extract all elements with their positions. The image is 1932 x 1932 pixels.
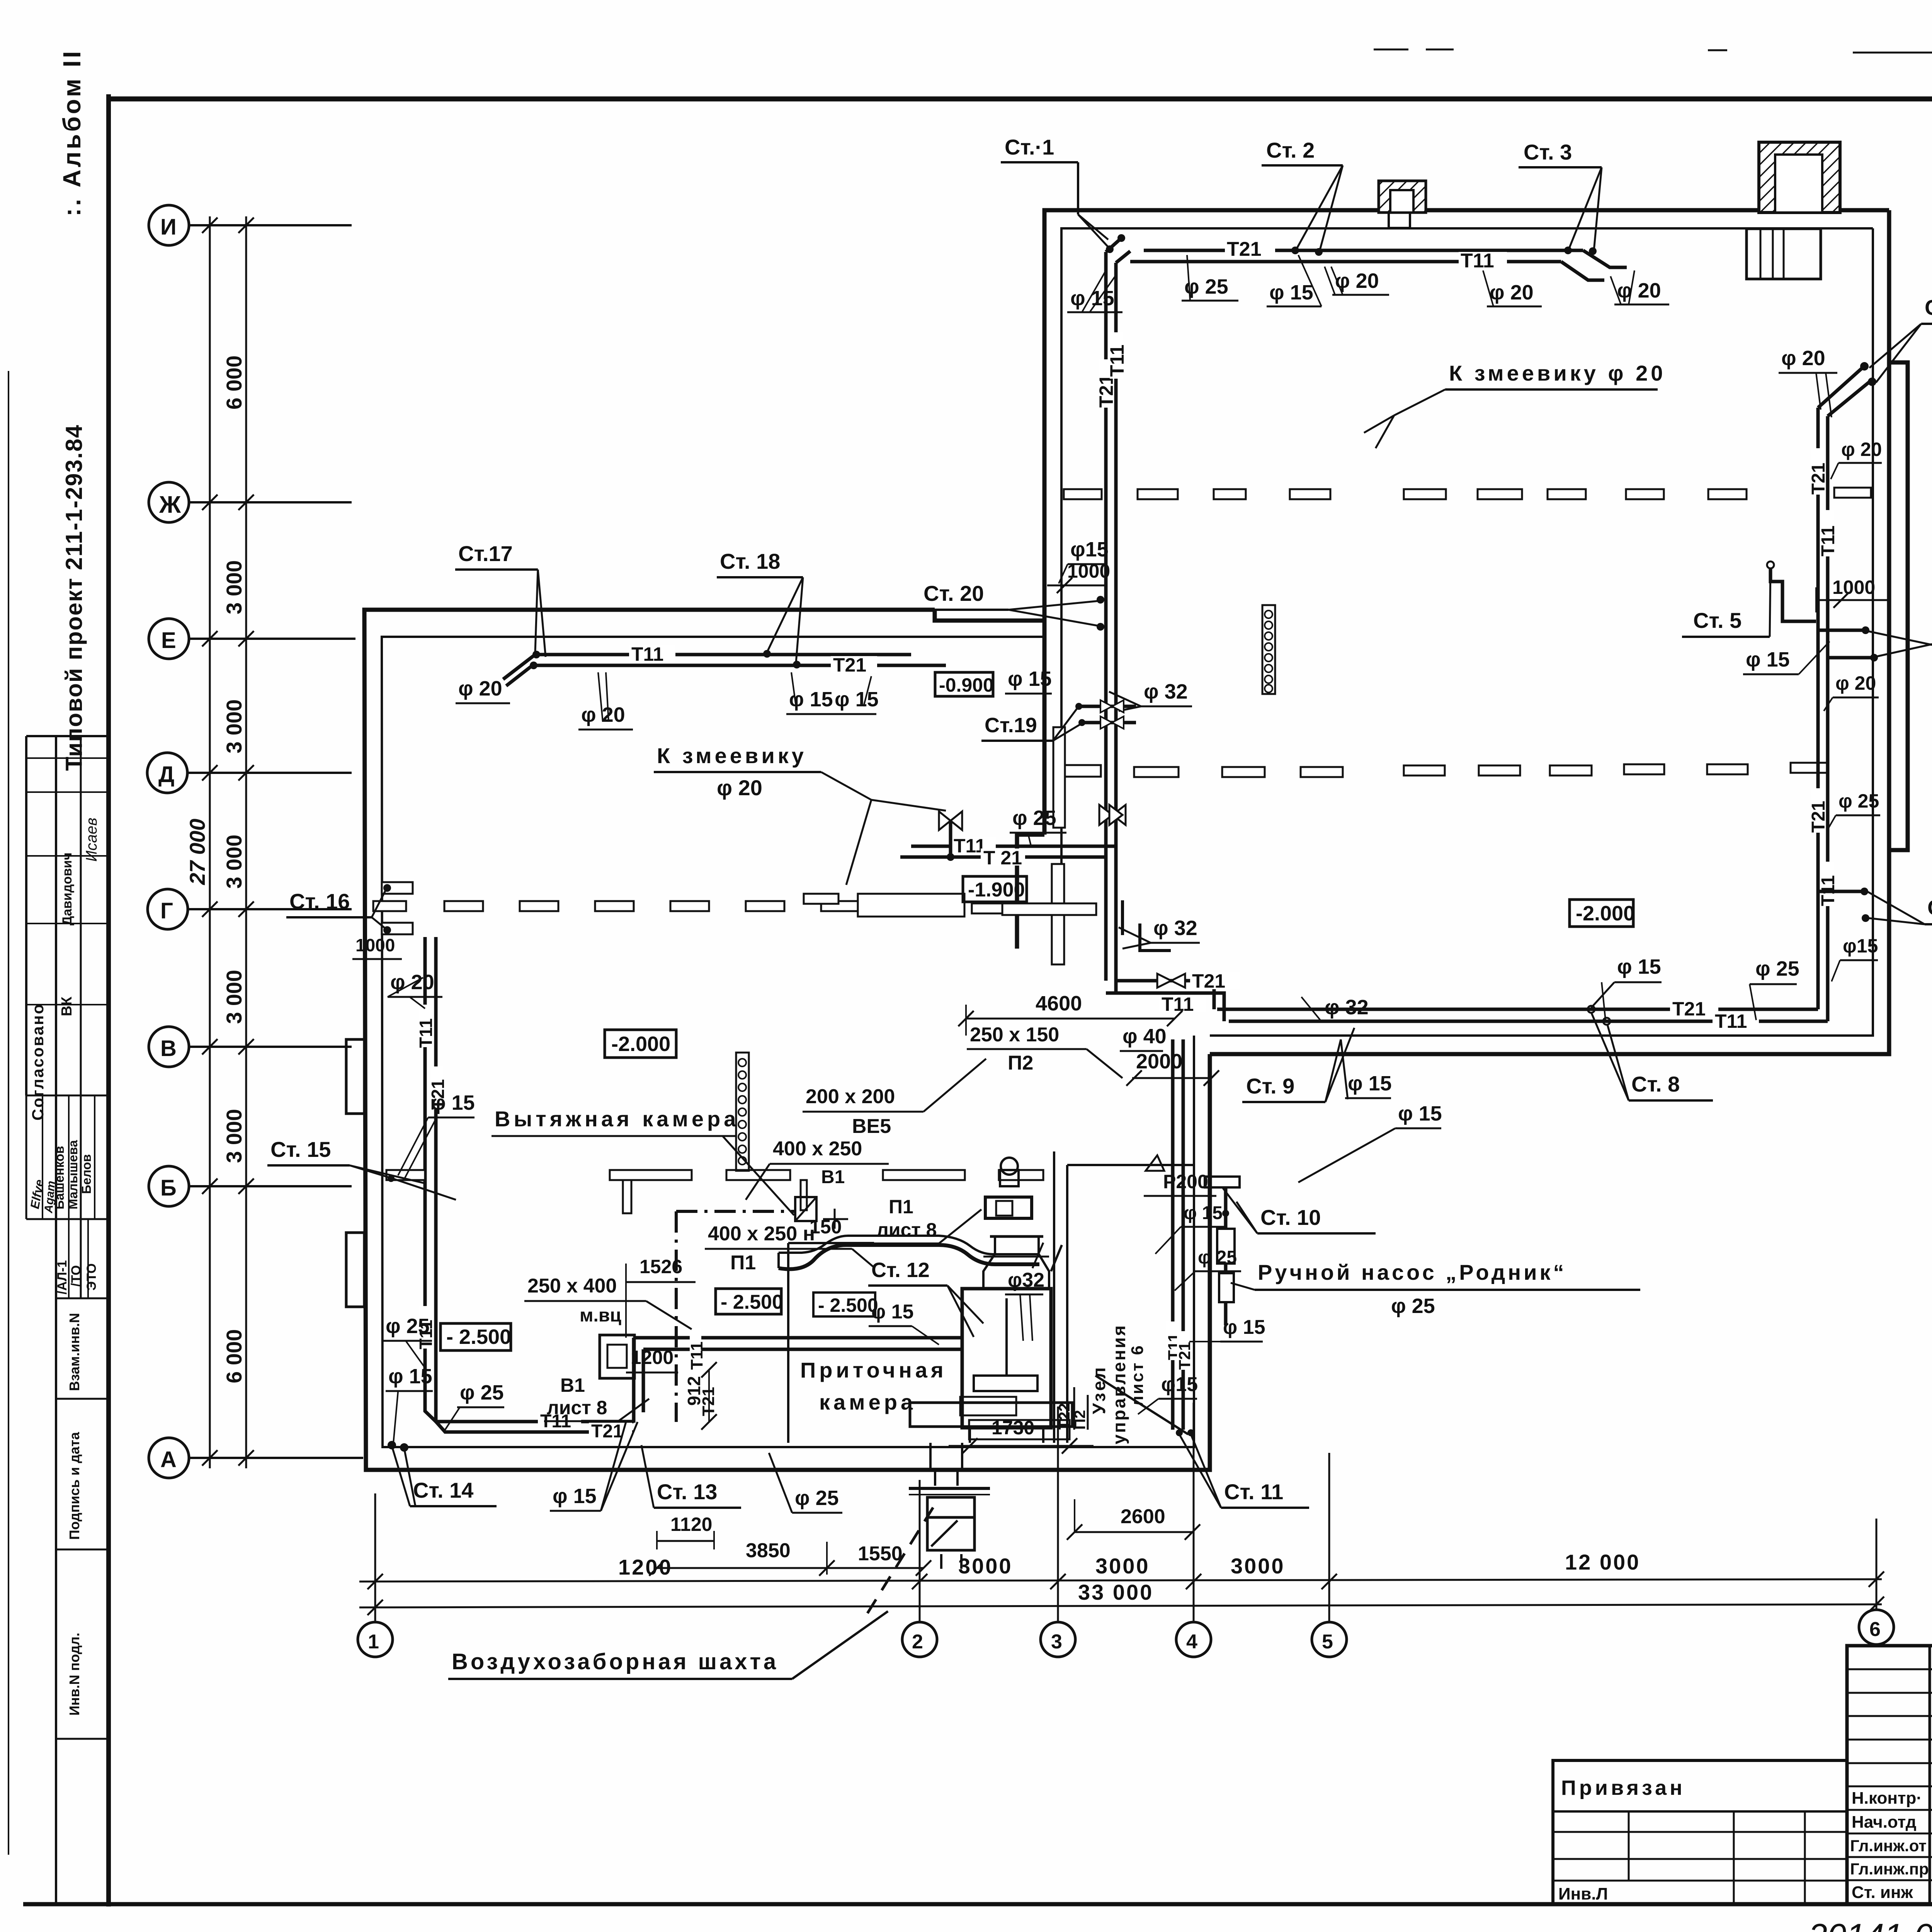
svg-text:Т11: Т11 (1106, 345, 1128, 377)
svg-text:12 000: 12 000 (1565, 1550, 1640, 1574)
St.3 callout (1519, 140, 1602, 255)
B1 box in vytyazhnaya (600, 1335, 634, 1378)
column circle 2 (902, 1480, 937, 1657)
svg-text:φ 20: φ 20 (1335, 269, 1379, 293)
svg-text:Ст. 16: Ст. 16 (289, 889, 350, 913)
4600 dimension (958, 992, 1182, 1036)
svg-text:Р200: Р200 (1163, 1171, 1208, 1192)
axis circle Г (148, 889, 352, 929)
phi25 on bottom run (1750, 957, 1799, 1020)
svg-text:φ 15: φ 15 (1070, 287, 1114, 310)
1730 dim (949, 1417, 1094, 1454)
pipes across pritochnaya (634, 1328, 962, 1423)
svg-text:2: 2 (912, 1631, 923, 1653)
svg-text:φ 20: φ 20 (458, 677, 502, 700)
svg-text:φ 15: φ 15 (388, 1365, 432, 1388)
svg-text:φ 25: φ 25 (1012, 806, 1056, 830)
page scan edge artifact line (8, 371, 9, 1855)
interior pipes vertical (1165, 1039, 1194, 1430)
svg-text:Инв.N подл.: Инв.N подл. (66, 1633, 82, 1716)
svg-text:400 x 250: 400 x 250 (773, 1138, 862, 1160)
phi15 under P200 (1155, 1203, 1227, 1254)
svg-text:Т21: Т21 (1095, 374, 1117, 408)
stub band axis Д hall (1134, 763, 1827, 777)
svg-text:1120: 1120 (670, 1514, 712, 1535)
svg-text:1200: 1200 (631, 1347, 673, 1368)
B1 list8 callout (544, 1374, 649, 1421)
svg-text:Ст.19: Ст.19 (985, 714, 1037, 737)
hall mid junction horizontals (900, 835, 1116, 869)
svg-text:φ 15: φ 15 (1008, 667, 1052, 690)
svg-text:Т11: Т11 (1461, 250, 1494, 272)
svg-text:Ст. инж: Ст. инж (1852, 1883, 1913, 1902)
svg-text:φ 15: φ 15 (1223, 1316, 1265, 1338)
wall hall right outer (1210, 210, 1889, 1054)
St.4 callout (1869, 295, 1932, 383)
phi25 mid left (383, 1315, 432, 1368)
axis circle И (149, 205, 352, 245)
svg-text:Т21: Т21 (1808, 463, 1829, 495)
1000 dim below St16 (352, 935, 402, 959)
svg-text:φ32: φ32 (1008, 1269, 1044, 1291)
svg-text:П1: П1 (730, 1252, 756, 1274)
svg-text:4600: 4600 (1036, 992, 1082, 1015)
svg-text:/АЛ-1: /АЛ-1 (55, 1260, 70, 1294)
column circle 5 (1312, 1453, 1347, 1657)
svg-text:ВЕ5: ВЕ5 (852, 1115, 891, 1138)
svg-text:Т21: Т21 (1227, 238, 1262, 260)
svg-text:φ 20: φ 20 (1617, 279, 1661, 302)
damper box B1 (795, 1197, 816, 1221)
T22 P2 rotated labels (1056, 1387, 1088, 1430)
phi20 label 2 (578, 672, 633, 730)
1000 dim top riser (1047, 560, 1110, 593)
svg-text:3 000: 3 000 (222, 560, 246, 614)
St.20 callout (883, 581, 1104, 631)
svg-text:Ст. 5: Ст. 5 (1693, 608, 1742, 633)
svg-text:Узел: Узел (1089, 1365, 1109, 1414)
svg-text:Инв.Л: Инв.Л (1558, 1884, 1608, 1903)
Vozduhozaborna shahta label (448, 1611, 888, 1679)
shaft box (927, 1497, 975, 1569)
-0.900 box (935, 672, 994, 696)
svg-text:Ст.·1: Ст.·1 (1005, 135, 1054, 159)
svg-text::. Альбом II: :. Альбом II (58, 49, 86, 216)
top corner elbows to risers (1106, 234, 1130, 263)
hall top phi labels (1067, 270, 1122, 312)
axis circle А (149, 1438, 363, 1478)
svg-text:В: В (160, 1036, 177, 1061)
svg-text:3850: 3850 (746, 1539, 791, 1562)
tank body (962, 1289, 1051, 1428)
svg-text:φ 25: φ 25 (386, 1315, 430, 1338)
svg-text:И: И (160, 214, 177, 240)
svg-text:φ 15: φ 15 (1348, 1072, 1392, 1095)
svg-text:Т 21: Т 21 (983, 847, 1022, 869)
svg-text:Ручной насос „Родник“: Ручной насос „Родник“ (1258, 1260, 1567, 1284)
svg-text:К змеевику φ 20: К змеевику φ 20 (1449, 361, 1666, 385)
cross wall stub lower (1002, 864, 1096, 964)
St.17 callout (455, 541, 546, 657)
St.5 branch (1682, 561, 1891, 637)
wall left building top step (935, 610, 1044, 621)
svg-text:1550: 1550 (858, 1543, 903, 1565)
svg-text:Т11: Т11 (416, 1018, 436, 1048)
partition pritochnaya left wall (788, 1243, 874, 1443)
svg-text:27 000: 27 000 (185, 819, 209, 885)
svg-text:Ст. 11: Ст. 11 (1224, 1480, 1283, 1504)
Ruchnoy nasos Rodnik plan label (1231, 1260, 1640, 1318)
St.2 callout (1262, 138, 1343, 256)
top scan strip thin line and dashes (1374, 49, 1932, 53)
svg-text:250 x 150: 250 x 150 (970, 1024, 1059, 1046)
svg-text:φ 32: φ 32 (1325, 996, 1369, 1019)
svg-text:φ 25: φ 25 (1755, 957, 1799, 980)
svg-text:φ 15: φ 15 (835, 688, 879, 711)
valves chain below K zmeeviku (939, 811, 962, 861)
svg-text:Подпись и дата: Подпись и дата (66, 1432, 82, 1540)
phi25 bottom center (769, 1453, 842, 1513)
phi25 bottom left2 (445, 1381, 504, 1430)
top run T21 (530, 654, 946, 676)
svg-text:П2: П2 (1008, 1052, 1033, 1074)
svg-text:φ 20: φ 20 (581, 703, 625, 726)
svg-text:φ 20: φ 20 (717, 776, 762, 800)
svg-text:м.вц: м.вц (580, 1305, 621, 1326)
St.15 callout (267, 1137, 456, 1200)
svg-text:Ст. 14: Ст. 14 (413, 1478, 473, 1502)
phi15 left mid (398, 1091, 475, 1178)
St.14 callout (388, 1441, 497, 1506)
pipe T21 hall top run (1144, 238, 1627, 267)
St.7 branch (1818, 888, 1932, 924)
stub band axis Ж hall (1064, 488, 1871, 499)
corridor wall axis Д left bldg (804, 894, 964, 917)
svg-text:Ст. 20: Ст. 20 (923, 581, 984, 605)
ladder in left building (736, 1053, 749, 1171)
svg-text:Приточная: Приточная (800, 1358, 947, 1382)
svg-text:Воздухозаборная шахта: Воздухозаборная шахта (452, 1649, 779, 1674)
3850 1550 dims (649, 1539, 931, 1576)
wall hall right protruding plate (1889, 362, 1908, 850)
svg-text:Типовой проект 211-1-293.84: Типовой проект 211-1-293.84 (61, 424, 87, 771)
St16 wall stubs left wall (382, 882, 413, 934)
-1.900 box (963, 876, 1027, 902)
svg-text:φ15: φ15 (1843, 935, 1878, 957)
svg-text:1: 1 (368, 1631, 379, 1653)
svg-text:Белов: Белов (79, 1154, 94, 1194)
1200 dim (626, 1347, 678, 1372)
equipment rects in uzel (1205, 1177, 1240, 1325)
wall hall left lower jog (1017, 819, 1061, 949)
svg-text:Т11: Т11 (1162, 993, 1194, 1015)
dashed leader to shaft (867, 1501, 937, 1613)
pilaster lower left (346, 1233, 364, 1307)
svg-text:φ 15: φ 15 (553, 1485, 597, 1508)
svg-text:/ТО: /ТО (69, 1265, 83, 1287)
pilaster upper left (346, 1039, 364, 1114)
phi15 right of uzel (1298, 1102, 1442, 1182)
svg-text:Гл.инж.от: Гл.инж.от (1850, 1837, 1927, 1855)
svg-text:Г: Г (160, 898, 173, 923)
svg-text:2600: 2600 (1121, 1505, 1165, 1528)
svg-text:А: А (160, 1447, 177, 1472)
svg-text:φ 25: φ 25 (795, 1486, 839, 1510)
base plinth (910, 1397, 1072, 1443)
lower branch from risers to right T21 (1116, 970, 1240, 1009)
shaft duct down from building (930, 1443, 962, 1486)
svg-text:1000: 1000 (355, 935, 395, 955)
phi20 below St6 (1824, 672, 1879, 711)
ladder in hall (1262, 605, 1275, 694)
svg-text:Ст. 8: Ст. 8 (1631, 1072, 1680, 1096)
column circle 6 (1859, 1519, 1894, 1645)
duct stub and tick (823, 1209, 848, 1229)
svg-text:Т21: Т21 (591, 1421, 623, 1442)
svg-text:5: 5 (1322, 1631, 1333, 1653)
svg-text:6 000: 6 000 (222, 355, 246, 410)
svg-text:φ 15: φ 15 (1398, 1102, 1442, 1125)
St.11 callout (1176, 1429, 1309, 1508)
svg-text:Давидович: Давидович (60, 852, 75, 925)
wall hall top inner (1061, 228, 1873, 819)
svg-text:φ 32: φ 32 (1153, 917, 1197, 940)
phi15 pritochnaya (869, 1301, 939, 1345)
svg-text:Ж: Ж (159, 492, 181, 518)
svg-text:Т11: Т11 (1818, 526, 1838, 556)
svg-text:П1: П1 (889, 1196, 913, 1218)
axis circle Б (149, 1166, 352, 1206)
St.19 callout and valves (981, 700, 1136, 741)
chimney B hatched (1759, 142, 1840, 213)
svg-text:φ 15: φ 15 (1746, 648, 1790, 671)
svg-text:1000: 1000 (1832, 577, 1875, 598)
svg-text:Д: Д (158, 762, 174, 787)
svg-text:ЭТО: ЭТО (84, 1263, 99, 1291)
svg-text:Н.контр·: Н.контр· (1852, 1789, 1922, 1808)
svg-text:φ 15: φ 15 (1617, 955, 1661, 978)
axis circle Ж (149, 482, 352, 522)
svg-text:управления: управления (1109, 1324, 1129, 1444)
svg-text:φ 15: φ 15 (431, 1091, 475, 1114)
svg-text:Малышева: Малышева (66, 1140, 80, 1209)
1120 dim (657, 1514, 714, 1549)
phi15 near st19 (1005, 667, 1052, 694)
dash-dot supply duct P1 (676, 1211, 795, 1422)
svg-text:лист 8: лист 8 (876, 1219, 937, 1241)
svg-text:Нач.отд: Нач.отд (1852, 1813, 1917, 1832)
svg-text:Вытяжная камера: Вытяжная камера (495, 1107, 739, 1131)
svg-text:φ 25: φ 25 (1391, 1294, 1435, 1318)
svg-text:3000: 3000 (1231, 1554, 1285, 1578)
svg-text:200 x 200: 200 x 200 (806, 1085, 895, 1108)
phi32 labels near lower branch (1301, 996, 1369, 1022)
St.9 callout (1242, 1028, 1392, 1102)
svg-text:-1.900: -1.900 (968, 879, 1025, 901)
phi15 and St.8 on bottom run (1588, 955, 1713, 1100)
svg-text:В1: В1 (560, 1374, 585, 1396)
phi15 below st7 (1832, 935, 1878, 981)
svg-text:φ 25: φ 25 (460, 1381, 504, 1404)
svg-text:φ 20: φ 20 (1835, 672, 1876, 694)
svg-text:-0.900: -0.900 (939, 674, 994, 696)
svg-text:-2.000: -2.000 (611, 1032, 670, 1056)
svg-text:3 000: 3 000 (222, 970, 246, 1024)
svg-text:φ15: φ15 (1161, 1373, 1198, 1396)
left dimension chain lines (185, 216, 254, 1468)
svg-text:Т11: Т11 (1715, 1010, 1747, 1032)
svg-text:3: 3 (1051, 1631, 1062, 1653)
chimney B lower box (1747, 229, 1821, 279)
bottom run labels (538, 1411, 632, 1442)
-2.000 box hall (1570, 900, 1635, 927)
svg-text:Б: Б (160, 1175, 177, 1201)
svg-text:912: 912 (684, 1376, 704, 1406)
K zmeeviku callout hall (1364, 361, 1666, 448)
phi25 uzel (1175, 1247, 1241, 1291)
svg-text:φ 15: φ 15 (871, 1301, 913, 1323)
TITLE BLOCK (1847, 1646, 1932, 1905)
T wall stub upper axis Д (1053, 727, 1101, 828)
svg-text:Ст.17: Ст.17 (458, 541, 513, 566)
wall hall top outer (1044, 210, 1889, 835)
chimney A hatched (1379, 181, 1426, 228)
912 dim rotated (684, 1362, 717, 1430)
svg-text:250 x 400: 250 x 400 (527, 1275, 617, 1297)
svg-text:φ 20: φ 20 (1841, 439, 1882, 460)
phi32 mid center callout2 (1119, 917, 1200, 949)
sidebar signoff table (26, 736, 109, 1904)
svg-text:Ст. 7: Ст. 7 (1927, 895, 1932, 920)
axis circle Е (149, 619, 355, 659)
-2.000 box left bldg (605, 1030, 676, 1058)
funnel transition (983, 1236, 1049, 1289)
wall left building inner (382, 637, 1194, 1447)
St.16 callout (286, 884, 391, 934)
svg-text:Т21: Т21 (1808, 801, 1829, 833)
bottom dimension line upper (359, 1550, 1884, 1589)
bottom run T11 (1229, 1010, 1828, 1032)
lower branch T11 (1106, 993, 1224, 1021)
phi25 at junction (1010, 806, 1066, 845)
svg-text:400 x 250 н: 400 x 250 н (708, 1223, 815, 1245)
svg-text:лист 8: лист 8 (547, 1397, 607, 1418)
svg-text:3 000: 3 000 (222, 835, 246, 889)
svg-text:Т21: Т21 (1175, 1342, 1194, 1370)
svg-text:3 000: 3 000 (222, 699, 246, 753)
svg-text:φ 25: φ 25 (1838, 790, 1879, 812)
svg-text:- 2.500: - 2.500 (818, 1294, 878, 1316)
svg-text:φ 20: φ 20 (1781, 347, 1825, 370)
duct elbow pieces hall bottom-left (1122, 900, 1171, 951)
rotated room label (1089, 1324, 1147, 1444)
column circle 4 (1176, 1403, 1211, 1657)
-2.500 box mid (716, 1289, 783, 1314)
svg-text:Т11: Т11 (687, 1342, 706, 1370)
Pritochnaya kamera label (800, 1358, 947, 1414)
valves on risers above junction (1099, 805, 1126, 825)
svg-text:6: 6 (1869, 1618, 1881, 1641)
riser pair T21 T11 vertical center (1095, 252, 1128, 993)
St.12 callout (868, 1259, 983, 1337)
handwritten notes below title block (1808, 1917, 1932, 1932)
svg-text:φ 32: φ 32 (1144, 680, 1188, 703)
Vytyazhnaya kamera label (492, 1107, 794, 1215)
bottom run T21 (1217, 998, 1818, 1020)
column circle 3 (1041, 1406, 1075, 1657)
phi15 phi15 labels top (786, 672, 879, 714)
svg-text:Ст. 4: Ст. 4 (1925, 295, 1932, 320)
svg-text:ВК: ВК (59, 997, 75, 1016)
wall left building outer (364, 610, 1210, 1470)
-2.500 box left (440, 1323, 511, 1350)
St.6 callout (1818, 611, 1932, 662)
duct callout texts (967, 1024, 1122, 1078)
phi15 lower left of uzel (1138, 1373, 1198, 1414)
svg-text:Е: Е (161, 628, 176, 653)
P200 callout (1144, 1155, 1216, 1196)
phi25 lower right riser (1827, 790, 1880, 831)
axis circle В (149, 1027, 352, 1067)
phi15 below (1189, 1316, 1265, 1342)
svg-text:φ 25: φ 25 (1184, 275, 1228, 298)
room diagonal leader (1095, 1376, 1188, 1434)
svg-text:2000: 2000 (1136, 1050, 1182, 1073)
svg-text:φ 20: φ 20 (1490, 281, 1534, 304)
phi20 label top left (456, 677, 510, 703)
svg-text:- 2.500: - 2.500 (721, 1291, 783, 1313)
St.13 callout (641, 1445, 741, 1508)
svg-text:φ 15: φ 15 (1269, 281, 1313, 304)
250x400 callout (524, 1275, 692, 1329)
axis circle Д (147, 753, 352, 793)
2000 dimension (1120, 1025, 1219, 1086)
phi20 below st16 (388, 971, 442, 1009)
svg-text:Т21: Т21 (1672, 998, 1706, 1020)
svg-text:3000: 3000 (1095, 1554, 1150, 1578)
uzel upravleniya room walls (1054, 1151, 1194, 1443)
phi20 on right riser mid (1831, 439, 1882, 479)
svg-text:Т21: Т21 (833, 654, 866, 676)
svg-text:φ 40: φ 40 (1122, 1025, 1167, 1048)
svg-text:33 000: 33 000 (1078, 1580, 1153, 1604)
1526 dim (626, 1256, 696, 1338)
top run T11 (532, 643, 911, 665)
phi15 left of St6 (1743, 641, 1830, 674)
St.1 callout (1001, 135, 1112, 251)
column circle 1 (358, 1493, 393, 1657)
svg-text:3 000: 3 000 (222, 1109, 246, 1163)
2600 dim (1067, 1499, 1200, 1540)
svg-text:Взам.инв.N: Взам.инв.N (66, 1313, 82, 1391)
svg-text:Ст. 12: Ст. 12 (871, 1259, 930, 1282)
privyazan box (1553, 1760, 1847, 1904)
vertical pipes mid partition labels (416, 1005, 448, 1349)
phi15 bottom center (550, 1422, 638, 1511)
svg-text:6 000: 6 000 (222, 1329, 246, 1383)
svg-text:К змеевику: К змеевику (657, 743, 807, 768)
wall hall right inner (1210, 228, 1873, 1036)
svg-text:1526: 1526 (639, 1256, 682, 1277)
stub band axis Б left building (386, 1170, 1043, 1213)
phi20 near st4 (1779, 347, 1837, 417)
svg-text:φ 15: φ 15 (1184, 1203, 1223, 1223)
svg-text:φ 20: φ 20 (390, 971, 434, 994)
svg-text:φ15: φ15 (1070, 538, 1109, 561)
svg-text:Исаев: Исаев (83, 818, 100, 862)
svg-text:Согласовано: Согласовано (29, 1003, 47, 1121)
St.10 callout (1223, 1188, 1376, 1233)
